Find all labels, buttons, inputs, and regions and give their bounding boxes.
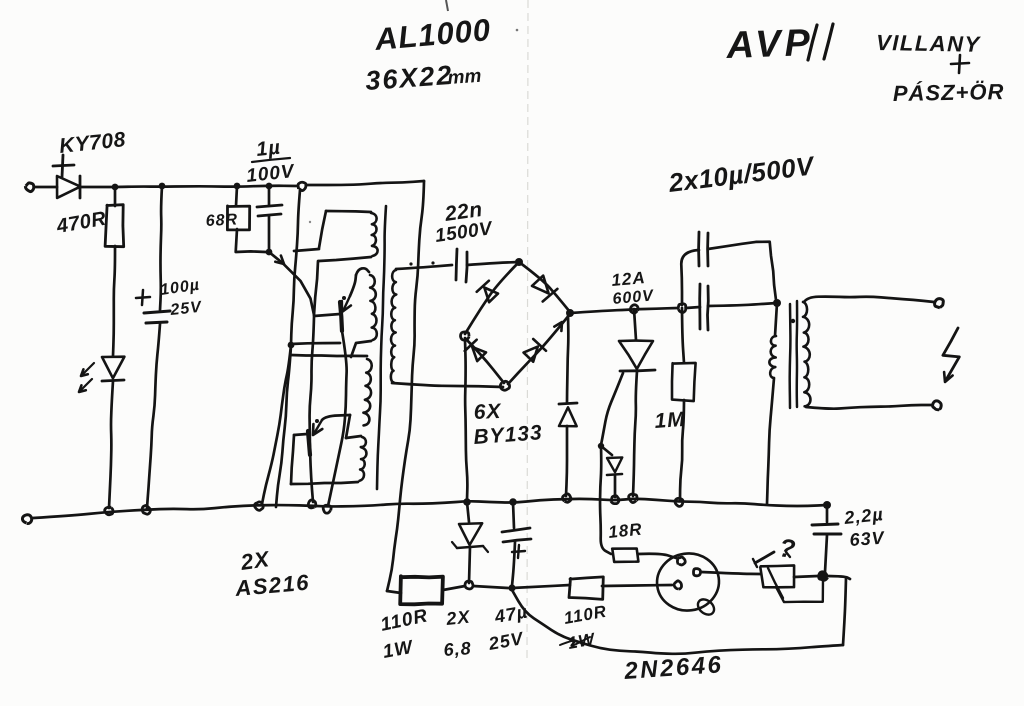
- T1 secondary top lead: [396, 265, 452, 269]
- svg-text:25V: 25V: [486, 628, 526, 654]
- capacitor C8a plate left: [697, 232, 700, 266]
- transistor UJT tab: [695, 596, 717, 618]
- junction ring Q2 rail: [308, 500, 316, 508]
- svg-text:470R: 470R: [54, 208, 108, 238]
- svg-text:18R: 18R: [607, 520, 643, 542]
- svg-text:1W: 1W: [381, 637, 416, 663]
- bridge diode D2 bar: [543, 289, 558, 302]
- plus sign 47u h: [512, 551, 525, 552]
- wire SCR anode: [634, 309, 636, 340]
- wire bridge right node down: [567, 316, 568, 402]
- T1 left edge lower: [314, 261, 318, 315]
- plus sign after VILLANY h: [951, 63, 969, 64]
- plus sign after VILLANY v: [959, 55, 960, 73]
- wire feed B to rail: [262, 345, 291, 504]
- svg-text:mm: mm: [447, 66, 482, 89]
- LED arrow 1 shaft: [82, 363, 94, 375]
- wire 470R to LED: [113, 246, 115, 356]
- svg-text:25V: 25V: [169, 299, 203, 319]
- capacitor 2u2 plate bottom: [814, 533, 841, 536]
- wire node6 to Q1 base: [269, 252, 314, 315]
- T2 primary coil: [769, 336, 776, 378]
- thyristor SCR cathode bar: [620, 370, 655, 371]
- UJT pin b2: [694, 569, 701, 576]
- T1 core line: [377, 206, 386, 489]
- T1 winding W1 left edge: [319, 211, 326, 248]
- wire C8b to T2 node: [708, 303, 777, 306]
- T1 base lead Q1: [314, 314, 340, 316]
- bridge diode D4 body: [524, 347, 538, 362]
- T1 secondary coil: [391, 270, 396, 382]
- transistor Q2 emitter arrow shaft: [315, 420, 322, 432]
- junction switch node: [819, 572, 826, 579]
- wire gate node to 18R: [600, 446, 611, 554]
- svg-text:AS216: AS216: [233, 570, 311, 602]
- diode D6 bar: [607, 474, 622, 475]
- T1 winding W1 top edge: [326, 211, 371, 212]
- wire node4 to cap 1u: [268, 186, 271, 205]
- svg-text:12A: 12A: [611, 268, 647, 290]
- T2 secondary coil: [803, 302, 810, 406]
- wire caps node to C8b: [686, 307, 700, 308]
- capacitor 22n plate left: [456, 249, 457, 280]
- bridge diode D3 bar: [465, 340, 477, 351]
- wire 110R to zener ring: [443, 586, 465, 590]
- svg-text:2,2µ: 2,2µ: [842, 504, 884, 528]
- capacitor C8b plate left: [698, 284, 701, 329]
- svg-text:68R: 68R: [205, 211, 238, 230]
- svg-text:2X: 2X: [238, 546, 271, 575]
- svg-text:2x10µ/500V: 2x10µ/500V: [666, 150, 817, 198]
- transistor Q1 base bar: [340, 302, 342, 331]
- output terminal bottom: [933, 401, 942, 410]
- capacitor C8b plate right: [706, 286, 710, 330]
- LED body: [102, 357, 124, 379]
- capacitor 100u plate bottom: [146, 322, 167, 323]
- label AVP II stroke 1: [808, 25, 817, 60]
- zener Z1 tail right: [483, 546, 488, 552]
- wire rail to cap 47u: [513, 502, 514, 528]
- wire cap 1u to node6: [268, 216, 271, 250]
- svg-text:BY133: BY133: [473, 421, 544, 449]
- wire T2 secondary bottom lead: [806, 405, 931, 409]
- bridge arm bottom-left: [465, 338, 504, 383]
- svg-text:PÁSZ+ÖR: PÁSZ+ÖR: [893, 79, 1005, 106]
- svg-text:110R: 110R: [379, 605, 430, 636]
- wire rail to zener Z1: [467, 502, 469, 522]
- wire caps node to 1M: [682, 308, 684, 363]
- bridge top node: [515, 258, 523, 266]
- bridge diode D3 body: [472, 347, 486, 361]
- capacitor 1u plate bottom: [258, 214, 281, 216]
- T1 winding W4 link down: [346, 415, 350, 438]
- transistor Q1 emitter arrow shaft: [344, 296, 350, 309]
- bridge bottom node: [500, 381, 509, 390]
- junction node3: [234, 183, 241, 190]
- svg-text:1500V: 1500V: [434, 218, 495, 247]
- junction gate node: [598, 443, 604, 449]
- lightning bolt: [943, 328, 959, 380]
- wire cap 100u to bottom rail: [147, 324, 160, 508]
- wire diode D6 to rail: [614, 476, 617, 497]
- tick on secondary lead b: [431, 261, 434, 264]
- wire node3 to 68R: [236, 186, 237, 206]
- wire UJT b2 to switch: [701, 572, 760, 574]
- scan speck dot: [516, 29, 519, 32]
- wire feed to 110R: [387, 591, 401, 593]
- svg-text:VILLANY: VILLANY: [876, 30, 982, 57]
- bridge right node: [566, 309, 574, 317]
- diode D6 body: [607, 457, 622, 472]
- junction ring D5 rail: [562, 494, 571, 502]
- wire node1 to 470R: [114, 187, 117, 206]
- svg-text:KY708: KY708: [58, 128, 127, 158]
- output terminal top: [935, 299, 944, 308]
- scan speck dot 2: [309, 221, 311, 223]
- junction ring cap100 rail: [142, 505, 150, 514]
- svg-text:110R: 110R: [562, 602, 608, 628]
- LED arrow 1 head: [81, 369, 88, 376]
- bridge arm bottom-right: [508, 314, 570, 384]
- diode KY708 body: [57, 176, 80, 198]
- wire 22n to bridge top: [467, 262, 519, 265]
- bridge diode D2 body: [532, 276, 549, 294]
- wire feed B upper: [291, 190, 300, 345]
- wire C8a left lead: [681, 250, 699, 305]
- capacitor 100u plate top: [144, 311, 170, 313]
- wire node2 to cap 100u: [160, 186, 162, 310]
- svg-text:?: ?: [777, 532, 798, 564]
- T1 winding W2 bottom edge: [351, 341, 371, 357]
- wire switch to node: [794, 576, 818, 577]
- capacitor C8a plate right: [706, 233, 709, 266]
- T1 secondary bottom lead: [392, 383, 503, 387]
- wire bridge left node down to rail: [465, 340, 467, 500]
- junction emitter row cap47: [508, 584, 515, 591]
- junction ring feedB rail: [255, 502, 264, 510]
- wire bottom rail: [33, 499, 827, 518]
- wire 68R down and right: [236, 229, 266, 252]
- T1 winding W1 bottom edge: [319, 257, 371, 261]
- plus sign input h: [53, 165, 74, 166]
- junction node6: [266, 249, 273, 256]
- junction ring 1M rail: [675, 498, 683, 506]
- scribble over 1W: [560, 637, 590, 646]
- transistor Q1 emitter arrowhead: [342, 301, 351, 312]
- bridge arm top-right: [519, 262, 570, 312]
- svg-text:AVP: AVP: [725, 22, 815, 67]
- T1 winding W3 upper edge: [291, 343, 340, 344]
- transistor Q2 base lead: [294, 434, 307, 435]
- wire 18R to UJT b1: [638, 554, 676, 558]
- resistor 18R: [612, 549, 638, 562]
- T2 core line 2: [795, 301, 798, 407]
- label AVP II stroke 2: [824, 24, 833, 59]
- T1 winding W1 coil: [371, 213, 378, 256]
- bridge diode D1 bar: [477, 281, 489, 292]
- plus sign 100u v: [142, 290, 143, 305]
- wire input to diode: [35, 186, 57, 189]
- transistor Q1 emitter curve: [350, 275, 356, 296]
- wire 1M to rail: [680, 400, 684, 500]
- capacitor 47u plate bottom: [503, 539, 531, 542]
- svg-text:AL1000: AL1000: [373, 12, 493, 57]
- wire zener Z1 down: [469, 547, 470, 583]
- wire 110R2 to UJT emitter: [602, 585, 672, 586]
- transistor Q1 ink blob: [342, 296, 346, 300]
- zener Z1 bar: [457, 546, 483, 548]
- UJT pin b1: [677, 557, 685, 565]
- wire top rail: [115, 186, 298, 187]
- switch body: [760, 565, 794, 587]
- capacitor 2u2 plate top: [812, 524, 838, 525]
- T1 winding W3 lower edge: [291, 355, 367, 356]
- bridge left node: [461, 332, 470, 340]
- wire long feed line down: [387, 181, 424, 591]
- wire LED to bottom rail: [109, 381, 113, 508]
- bridge arm top-left: [465, 262, 519, 334]
- plus sign input v: [62, 155, 63, 177]
- junction ring switch node: [819, 572, 828, 581]
- T1 winding W4 left edge: [291, 435, 294, 484]
- junction ring D6 rail: [611, 496, 619, 504]
- resistor 470R: [105, 205, 124, 247]
- junction T2 primary node: [773, 299, 781, 307]
- zener Z1 tail left: [452, 542, 457, 548]
- junction ring LED rail: [105, 507, 113, 515]
- T1 winding W4 coil: [360, 437, 367, 481]
- transistor Q2 ink blob: [315, 419, 319, 423]
- wire top rail right: [306, 181, 424, 185]
- transistor Q2 emitter curve: [322, 415, 350, 420]
- stub wire at winding W1: [294, 249, 319, 251]
- polarity dot T2: [791, 319, 795, 323]
- wire loop bottom: [512, 590, 843, 654]
- junction ring Q1 rail: [323, 505, 331, 513]
- junction ring SCR top: [630, 305, 638, 313]
- scan speck top tick: [446, 0, 448, 11]
- junction node4: [266, 183, 273, 190]
- svg-text:6X: 6X: [473, 400, 502, 424]
- junction cap47 rail: [509, 498, 517, 506]
- switch arm: [755, 552, 774, 563]
- svg-text:600V: 600V: [612, 287, 655, 308]
- wire diode to node1: [80, 186, 115, 189]
- switch lower quad: [776, 578, 823, 602]
- diode KY708 cathode bar: [79, 176, 82, 198]
- diode D5 body: [559, 407, 577, 426]
- svg-text:47µ: 47µ: [492, 601, 529, 627]
- junction ring node5: [298, 182, 306, 190]
- resistor 110R 1W: [400, 576, 443, 604]
- junction ring SCR rail: [629, 494, 638, 502]
- wire cap 2u2 down: [825, 535, 827, 572]
- wire bridge right to caps node: [570, 308, 678, 313]
- wire rail to cap 2u2: [826, 505, 829, 522]
- junction node2: [159, 183, 166, 190]
- LED arrow 2 head: [79, 385, 86, 392]
- tick on secondary lead a: [409, 262, 412, 265]
- switch arm serif: [753, 559, 757, 567]
- svg-text:2X: 2X: [444, 607, 471, 630]
- capacitor 47u plate top: [502, 528, 530, 532]
- T1 winding W2 rounded top: [356, 268, 369, 275]
- wire T2 secondary top lead: [804, 297, 934, 302]
- capacitor 22n plate right: [466, 252, 467, 282]
- zener Z1 body: [459, 523, 482, 545]
- svg-text:36X22: 36X22: [364, 60, 454, 96]
- junction node1: [112, 184, 119, 191]
- wire feed B2 to rail: [276, 346, 291, 507]
- T1 winding W3 coil: [363, 359, 371, 425]
- bridge diode D4 bar: [533, 339, 546, 351]
- T1 winding W4 top edge: [346, 436, 361, 438]
- label 1u underline: [252, 158, 290, 162]
- plus sign 47u v: [518, 545, 519, 558]
- svg-text:100µ: 100µ: [159, 277, 201, 299]
- wire loop right side: [843, 578, 846, 645]
- svg-text:63V: 63V: [849, 528, 886, 550]
- capacitor 1u plate top: [257, 205, 282, 207]
- bottom terminal: [22, 515, 31, 524]
- svg-text:1µ: 1µ: [255, 137, 282, 161]
- arrow on bridge right arm: [554, 322, 562, 331]
- junction ring zener row: [465, 581, 473, 589]
- switch diagonal: [768, 568, 783, 598]
- wire cap 47u down: [512, 542, 515, 586]
- question mark tick: [786, 552, 790, 557]
- bridge diode D1 body: [484, 288, 498, 303]
- T1 winding W2 coil: [370, 275, 377, 340]
- wire C8a right lead: [708, 242, 776, 300]
- wire cap47 node to 110R2: [512, 585, 570, 588]
- resistor 68R: [227, 206, 249, 230]
- wire SCR gate: [601, 373, 623, 445]
- paper crease: [527, 0, 528, 660]
- svg-text:1M: 1M: [654, 408, 687, 433]
- transistor Q1 collector wire: [328, 331, 347, 506]
- T1 winding W4 bottom edge: [291, 482, 358, 484]
- wire through Q2 collector: [310, 317, 314, 502]
- junction node W3: [288, 342, 295, 349]
- LED cathode bar: [102, 380, 124, 381]
- resistor 110R second: [569, 577, 603, 600]
- wire T2 primary top lead: [775, 303, 777, 336]
- junction 2u2 rail: [823, 501, 831, 509]
- wire gate node to diode D6: [601, 446, 612, 455]
- T2 core line 1: [788, 304, 791, 408]
- wire switch node right hook: [827, 576, 850, 579]
- wire diode D5 to rail: [566, 426, 567, 496]
- svg-text:2N2646: 2N2646: [623, 651, 725, 685]
- LED arrow 2 shaft: [80, 379, 92, 391]
- wire SCR cathode to rail: [633, 371, 637, 496]
- junction ring caps node: [678, 304, 686, 313]
- resistor 1M: [672, 363, 696, 401]
- svg-text:6,8: 6,8: [443, 638, 472, 660]
- thyristor SCR body: [619, 341, 653, 369]
- arrow on base wire: [275, 256, 284, 264]
- input terminal +: [25, 183, 33, 192]
- transistor Q2 base bar: [308, 431, 310, 455]
- wire zener ring to cap47 node: [473, 586, 508, 588]
- UJT pin emitter: [674, 581, 681, 589]
- transistor UJT 2N2646 case: [653, 549, 722, 614]
- svg-text:100V: 100V: [245, 161, 296, 187]
- wire T2 primary bottom: [767, 378, 774, 504]
- transistor Q2 emitter arrowhead: [313, 424, 322, 435]
- lightning bolt arrowhead: [944, 372, 953, 382]
- plus sign 100u h: [136, 297, 150, 298]
- junction zener rail: [463, 498, 471, 506]
- diode D5 bar: [559, 403, 577, 404]
